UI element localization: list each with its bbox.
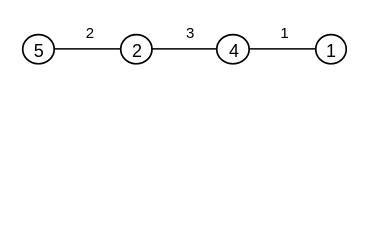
svg-text:3: 3 (186, 25, 194, 42)
svg-text:4: 4 (229, 41, 239, 61)
svg-text:1: 1 (280, 25, 288, 42)
wire edge 4-1 (233, 48, 331, 50)
svg-text:5: 5 (34, 41, 44, 61)
node 2 (121, 35, 152, 64)
svg-text:2: 2 (132, 41, 142, 61)
node 4 (217, 35, 249, 64)
node 1 (316, 35, 347, 64)
wire edge 2-4 (136, 48, 233, 50)
node 5 (23, 35, 55, 64)
wire edge 5-2 (38, 48, 136, 50)
svg-text:2: 2 (86, 25, 94, 42)
svg-text:1: 1 (326, 41, 336, 61)
